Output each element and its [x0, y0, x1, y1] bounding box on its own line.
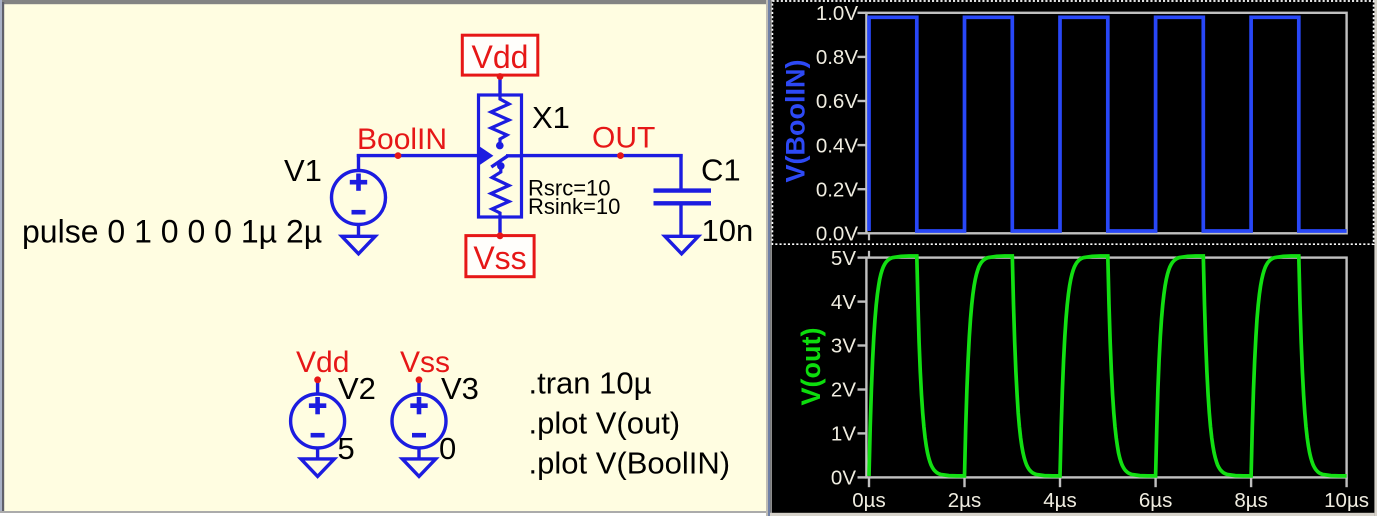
- junction dot lower: [497, 162, 505, 170]
- svg-text:pulse 0 1 0 0 0 1µ 2µ: pulse 0 1 0 0 0 1µ 2µ: [22, 214, 322, 250]
- svg-text:5V: 5V: [831, 247, 856, 270]
- y tick 3V (bottom pane): [831, 335, 866, 358]
- splitter divider: [766, 0, 768, 516]
- svg-text:Rsink=10: Rsink=10: [528, 194, 620, 219]
- node dot under Vdd flag: [497, 73, 504, 80]
- svg-text:10n: 10n: [702, 213, 754, 248]
- trace V(out) RC waveform: [869, 256, 1347, 476]
- svg-text:0.2V: 0.2V: [816, 178, 858, 201]
- svg-text:V1: V1: [284, 153, 322, 188]
- capacitor C1: [654, 191, 712, 237]
- bottom pane plot frame: [866, 258, 1346, 478]
- svg-text:0.0V: 0.0V: [816, 223, 858, 246]
- y tick 0.4V (top pane): [816, 134, 867, 157]
- svg-text:2V: 2V: [831, 379, 856, 402]
- resistor lower (Rsink) inside X1: [491, 169, 509, 217]
- node dot V3 top: [416, 376, 423, 383]
- ground below V1: [342, 236, 375, 254]
- y tick 0.8V (top pane): [816, 46, 867, 69]
- y tick 5V (bottom pane): [831, 247, 866, 270]
- svg-text:X1: X1: [532, 100, 570, 135]
- svg-text:4V: 4V: [831, 291, 856, 314]
- svg-text:V2: V2: [338, 371, 376, 406]
- svg-text:V(out): V(out): [796, 328, 826, 406]
- junction dot upper: [496, 142, 504, 150]
- svg-text:.plot V(BoolIN): .plot V(BoolIN): [529, 446, 731, 481]
- svg-text:Vss: Vss: [473, 240, 526, 276]
- schematic top border: [0, 0, 766, 4]
- svg-text:.plot V(out): .plot V(out): [529, 406, 681, 441]
- svg-text:2µs: 2µs: [948, 489, 981, 512]
- y tick 4V (bottom pane): [831, 291, 866, 314]
- schematic left border: [0, 0, 2, 512]
- svg-text:0.6V: 0.6V: [816, 90, 858, 113]
- resistor upper (Rsrc) inside X1: [491, 95, 509, 142]
- svg-text:0.4V: 0.4V: [816, 134, 858, 157]
- wire BoolIN horizontal to X1 input: [357, 154, 480, 157]
- y tick 1V (bottom pane): [831, 423, 866, 446]
- y tick 0.6V (top pane): [816, 90, 867, 113]
- wire X1 bottom to Vss: [498, 217, 501, 236]
- svg-text:0.8V: 0.8V: [816, 46, 858, 69]
- x tick 2us: [948, 478, 981, 512]
- x tick 10us: [1324, 478, 1369, 512]
- y tick 2V (bottom pane): [831, 379, 866, 402]
- plot window bottom border: [770, 513, 1374, 516]
- svg-text:BoolIN: BoolIN: [357, 123, 447, 156]
- ground below C1: [665, 236, 698, 254]
- svg-text:5: 5: [338, 431, 355, 466]
- svg-text:0µs: 0µs: [852, 489, 885, 512]
- svg-text:4µs: 4µs: [1043, 489, 1076, 512]
- node dot V2 top: [314, 376, 321, 383]
- svg-text:1V: 1V: [831, 423, 856, 446]
- node dot BoolIN: [395, 152, 402, 159]
- y tick 0.2V (top pane): [816, 178, 867, 201]
- x tick 0us: [852, 478, 885, 512]
- voltage source V1: [332, 171, 386, 225]
- svg-text:8µs: 8µs: [1234, 489, 1267, 512]
- axis tick 0us between panes: [868, 233, 870, 240]
- svg-text:.tran 10µ: .tran 10µ: [529, 366, 652, 401]
- trace V(BoolIN) square wave: [869, 17, 1347, 231]
- wire V1 bottom to ground: [357, 223, 360, 237]
- svg-text:10µs: 10µs: [1324, 489, 1369, 512]
- selection dotted border (active top pane): [772, 1, 1373, 244]
- X1 output stub: [506, 154, 523, 157]
- plot window right border: [1374, 0, 1377, 516]
- port flag Vss (bottom): [466, 236, 534, 277]
- ground below V2: [301, 459, 334, 477]
- x tick 8us: [1234, 478, 1267, 512]
- schematic bottom border: [0, 511, 766, 513]
- switch arm: [491, 156, 508, 167]
- y tick 0V (bottom pane): [831, 467, 866, 490]
- node dot above Vss flag: [497, 232, 504, 239]
- svg-text:Vdd: Vdd: [472, 39, 529, 75]
- svg-text:V(BoolIN): V(BoolIN): [781, 60, 811, 183]
- port flag Vdd (top): [462, 35, 538, 75]
- svg-text:6µs: 6µs: [1139, 489, 1172, 512]
- top pane plot frame: [866, 13, 1346, 234]
- svg-text:V3: V3: [441, 371, 479, 406]
- x tick 6us: [1139, 478, 1172, 512]
- wire Vdd to X1 top: [498, 77, 501, 97]
- ground below V3: [402, 459, 435, 477]
- plot window background: [766, 0, 1377, 516]
- voltage source V3: [392, 380, 446, 460]
- node dot OUT: [617, 152, 624, 159]
- svg-text:1.0V: 1.0V: [816, 2, 858, 25]
- y tick 1.0V (top pane): [816, 2, 867, 25]
- svg-text:C1: C1: [701, 153, 741, 188]
- svg-text:0: 0: [439, 431, 456, 466]
- y tick 0.0V (top pane): [816, 223, 867, 246]
- wire X1 output to C1: [521, 154, 683, 157]
- voltage source V2: [291, 380, 345, 460]
- schematic pane background: [0, 0, 766, 516]
- input arrow of X1: [480, 147, 493, 164]
- x tick 4us: [1043, 478, 1076, 512]
- svg-text:0V: 0V: [831, 467, 856, 490]
- subcircuit X1 box: [479, 95, 522, 217]
- svg-text:3V: 3V: [831, 335, 856, 358]
- wire V1 top to BoolIN corner: [357, 154, 360, 172]
- svg-text:OUT: OUT: [592, 122, 655, 155]
